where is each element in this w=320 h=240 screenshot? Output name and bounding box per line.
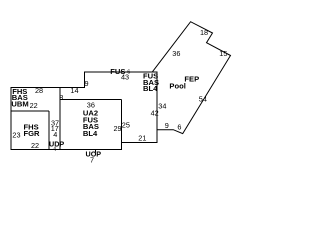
svg-text:4: 4 bbox=[53, 147, 56, 153]
svg-text:BL4: BL4 bbox=[143, 84, 158, 93]
svg-text:8: 8 bbox=[59, 93, 63, 102]
svg-text:FEP: FEP bbox=[184, 75, 199, 84]
svg-text:22: 22 bbox=[31, 141, 39, 150]
svg-text:28: 28 bbox=[35, 86, 43, 95]
wire divider x=60 bbox=[59, 88, 61, 150]
wire FGR right x=48.9 bbox=[48, 111, 50, 150]
svg-text:7: 7 bbox=[90, 155, 94, 164]
svg-text:36: 36 bbox=[172, 49, 180, 58]
svg-text:21: 21 bbox=[138, 134, 146, 143]
pool quad with stub bbox=[152, 22, 230, 134]
svg-text:18: 18 bbox=[200, 28, 208, 37]
wire FGR top y=111.2 bbox=[11, 110, 49, 112]
svg-text:4: 4 bbox=[53, 130, 57, 139]
tick UOP bbox=[95, 150, 97, 153]
wire divider y=99 bbox=[60, 98, 121, 100]
svg-text:BL4: BL4 bbox=[83, 129, 98, 138]
svg-text:UBM: UBM bbox=[11, 100, 28, 109]
svg-text:23: 23 bbox=[12, 131, 20, 140]
svg-text:34: 34 bbox=[158, 102, 166, 111]
svg-text:Pool: Pool bbox=[169, 82, 185, 91]
svg-text:22: 22 bbox=[30, 101, 38, 110]
svg-text:25: 25 bbox=[122, 121, 130, 130]
wire divider x=121.4 bbox=[120, 99, 122, 142]
svg-text:15: 15 bbox=[219, 49, 227, 58]
building outline bbox=[11, 72, 157, 150]
svg-text:42: 42 bbox=[151, 108, 159, 117]
svg-text:54: 54 bbox=[199, 94, 207, 103]
svg-text:29: 29 bbox=[114, 124, 122, 133]
svg-text:6: 6 bbox=[177, 122, 181, 131]
svg-text:FGR: FGR bbox=[24, 129, 41, 138]
svg-text:43: 43 bbox=[121, 73, 129, 82]
svg-text:9: 9 bbox=[85, 79, 89, 88]
svg-text:14: 14 bbox=[70, 86, 78, 95]
svg-text:UDP: UDP bbox=[49, 139, 64, 148]
svg-text:9: 9 bbox=[165, 121, 169, 130]
